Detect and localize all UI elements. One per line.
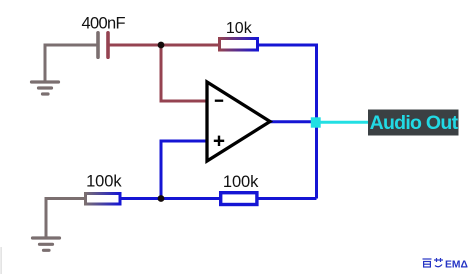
junction dot (input node) xyxy=(158,42,165,49)
resistor R1 10k xyxy=(220,39,258,51)
op-amp plus pin symbol xyxy=(214,136,224,146)
ground GND1 (top left) xyxy=(32,82,59,94)
wire maroon: C1 to R1 xyxy=(110,44,220,47)
watermark logo 百芯 EMA xyxy=(423,258,444,267)
wire blue: bottom net right segment xyxy=(258,197,317,200)
svg-text:Audio Out: Audio Out xyxy=(370,112,459,134)
svg-text:100k: 100k xyxy=(223,173,259,191)
output node (cyan square) xyxy=(311,117,321,127)
wire blue: bottom net left segment xyxy=(121,197,220,200)
faint page edge artifact xyxy=(1,247,2,274)
wire gray: GND1 to C1 left plate xyxy=(45,45,97,82)
wire maroon: node to op-amp inverting input xyxy=(161,45,206,101)
Audio Out net label xyxy=(368,110,459,136)
resistor R2 100k xyxy=(86,194,121,205)
op-amp U1 xyxy=(207,82,270,161)
junction dot (feedback node) xyxy=(158,195,165,202)
capacitor C1 right plate xyxy=(106,33,110,57)
wire blue: op-amp output to node xyxy=(269,120,317,123)
wire cyan: node to Audio Out label xyxy=(318,121,368,124)
capacitor C1 left plate xyxy=(96,33,100,57)
svg-text:EMΔ: EMΔ xyxy=(445,259,468,270)
wire blue: non-inverting input to bottom node xyxy=(161,141,206,199)
svg-text:10k: 10k xyxy=(226,20,253,37)
svg-text:400nF: 400nF xyxy=(82,14,126,32)
ground GND2 (bottom left) xyxy=(33,238,60,250)
svg-text:100k: 100k xyxy=(86,173,122,191)
wire gray: R2 to GND2 xyxy=(46,199,85,238)
wire blue: R1 to feedback corner down to output node xyxy=(258,45,317,199)
resistor R3 100k xyxy=(221,193,257,205)
op-amp minus pin symbol xyxy=(215,100,223,102)
